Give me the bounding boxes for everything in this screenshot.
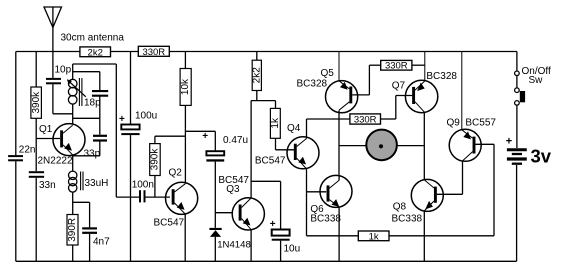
wire emitter node to 4n7 (73, 202, 90, 227)
wire left rail lower (15, 161, 17, 261)
Q1 emitter arrow (65, 144, 71, 150)
wire Q5 collector down (338, 110, 340, 175)
svg-text:+: + (270, 219, 276, 230)
trimmer arrow head (67, 79, 72, 85)
wire Q8 base to Q9 collector (437, 161, 463, 195)
wire top rail (16, 51, 517, 53)
wire Q6 emitter down (338, 207, 340, 261)
wire Q7 base (396, 95, 412, 97)
Q8 emitter arrow (426, 202, 432, 209)
transistor Q4 (287, 137, 319, 169)
svg-text:2k2: 2k2 (88, 47, 103, 58)
wire Q5 base to 330R upper (352, 65, 381, 95)
svg-text:+: + (119, 114, 125, 125)
capacitor 33p (73, 118, 100, 156)
transistor Q3 (232, 198, 264, 230)
wire Q4 emitter down and right (307, 169, 359, 236)
svg-text:330R: 330R (354, 115, 377, 126)
wire Q3 emitter (250, 230, 252, 261)
capacitor 18p (tank) (99, 72, 101, 119)
wire Q4 collector to mic node (307, 119, 350, 139)
capacitor 100n (140, 190, 145, 202)
transistor Q5 (326, 52, 358, 113)
wire Q2 collector node to 0.47u (185, 131, 215, 150)
wire Q8 emitter down (423, 211, 425, 261)
svg-text:Q3: Q3 (226, 184, 240, 195)
svg-text:BC547: BC547 (154, 217, 185, 228)
svg-text:3v: 3v (531, 146, 552, 167)
coil L1 with adjustable core (68, 64, 85, 124)
svg-text:BC338: BC338 (392, 213, 423, 224)
svg-text:390k: 390k (31, 91, 42, 114)
svg-text:BC338: BC338 (310, 213, 341, 224)
wire tank bottom2 (73, 117, 100, 119)
svg-text:1k: 1k (369, 231, 379, 242)
wire Q6 collector up (338, 175, 340, 180)
Q2 emitter arrow (178, 203, 184, 209)
svg-text:Q4: Q4 (287, 123, 301, 134)
resistor 1k (vertical) (270, 101, 294, 150)
wire 330R right to Q7 base line (381, 96, 396, 120)
switch knob (520, 91, 525, 102)
wire 33n to bottom rail (35, 178, 37, 261)
wire Q3 collector riser (251, 101, 281, 230)
svg-text:33n: 33n (39, 180, 56, 191)
wire 330R right to Q7 emitter line (412, 64, 425, 66)
wire 10p to tank bottom (53, 84, 73, 114)
wire tank top rail (73, 63, 117, 65)
svg-text:BC547: BC547 (255, 155, 286, 166)
resistor 390k (Q2 feedback) (150, 136, 186, 197)
resistor 330R (mic feed) (350, 114, 381, 126)
svg-text:10u: 10u (284, 244, 301, 255)
svg-text:Q8: Q8 (393, 202, 407, 213)
svg-text:2k2: 2k2 (251, 67, 262, 84)
inductor 33uH with core (69, 171, 84, 214)
resistor 390R (67, 215, 78, 262)
svg-text:22n: 22n (19, 145, 36, 156)
svg-text:BC557: BC557 (465, 118, 496, 129)
svg-text:2N2222: 2N2222 (38, 156, 73, 167)
svg-text:30cm antenna: 30cm antenna (61, 33, 125, 44)
wire Q7 collector down (423, 113, 425, 180)
Q9 emitter arrow (PNP) (464, 132, 470, 139)
transistor Q6 (320, 175, 352, 207)
svg-text:Q7: Q7 (392, 81, 406, 92)
Q7 emitter arrow (PNP) (418, 83, 424, 90)
svg-text:10p: 10p (55, 65, 72, 76)
svg-text:100u: 100u (135, 111, 157, 122)
wire left rail upper (15, 52, 17, 156)
battery 3v (507, 150, 527, 164)
resistor 2k2 (top rail) (80, 47, 111, 58)
microphone electret (339, 130, 424, 161)
svg-text:33p: 33p (84, 149, 101, 160)
resistor 330R (top rail) (138, 46, 169, 58)
transistor Q1 (53, 124, 85, 156)
capacitor 0.47u electrolytic (206, 151, 224, 155)
capacitor 22n (8, 156, 23, 160)
svg-text:10k: 10k (180, 78, 191, 95)
transistor Q9 (449, 52, 481, 162)
svg-text:4n7: 4n7 (93, 237, 110, 248)
diode 1N4148 (209, 228, 221, 261)
wire Q3 base lead (215, 212, 232, 214)
capacitor 10u electrolytic (272, 230, 290, 236)
antenna (44, 7, 62, 79)
resistor 10k (180, 52, 191, 184)
wire audio feedback line (116, 64, 139, 197)
capacitor 10p (46, 79, 61, 83)
Q4 emitter arrow (299, 158, 305, 164)
resistor 1k (horizontal) (358, 231, 389, 242)
switch On/Off (515, 52, 520, 149)
resistor 330R (Q5 base) (381, 60, 412, 71)
svg-text:330R: 330R (142, 47, 165, 58)
svg-text:100n: 100n (132, 180, 154, 191)
resistor 390k (Q1 bias) (31, 52, 42, 139)
svg-text:33uH: 33uH (85, 178, 109, 189)
svg-text:1N4148: 1N4148 (217, 239, 251, 250)
svg-text:Sw: Sw (529, 75, 544, 86)
resistor 2k2 (vertical) (252, 52, 261, 101)
svg-text:390R: 390R (67, 218, 78, 242)
capacitor 100u electrolytic (121, 52, 139, 262)
svg-text:1k: 1k (270, 117, 281, 129)
transistor Q2 (166, 182, 198, 214)
svg-text:+: + (202, 131, 208, 142)
capacitor 4n7 (82, 228, 97, 232)
svg-text:BC328: BC328 (297, 78, 328, 89)
svg-text:390k: 390k (150, 148, 161, 171)
svg-text:Q1: Q1 (39, 124, 53, 135)
transistor Q7 (405, 52, 437, 113)
Q3 emitter arrow (243, 219, 249, 225)
wire Q1 base node (36, 139, 60, 172)
wire tank tap rail (73, 71, 100, 73)
Q5 emitter arrow (PNP) (341, 83, 347, 90)
wire Q2 emitter (184, 214, 186, 261)
svg-text:Q2: Q2 (169, 168, 183, 179)
svg-text:Q9: Q9 (447, 118, 461, 129)
svg-text:330R: 330R (385, 61, 408, 72)
wire Q1 emitter (72, 155, 74, 171)
svg-text:+: + (506, 136, 512, 148)
Q6 emitter arrow (332, 200, 338, 206)
capacitor 33n (29, 172, 44, 177)
svg-text:BC328: BC328 (426, 71, 457, 82)
svg-text:0.47u: 0.47u (223, 135, 248, 146)
transistor Q8 (411, 179, 443, 211)
svg-text:18p: 18p (84, 98, 101, 109)
wire 1k right to Q9 base (389, 144, 494, 236)
wire bottom rail (16, 260, 517, 262)
